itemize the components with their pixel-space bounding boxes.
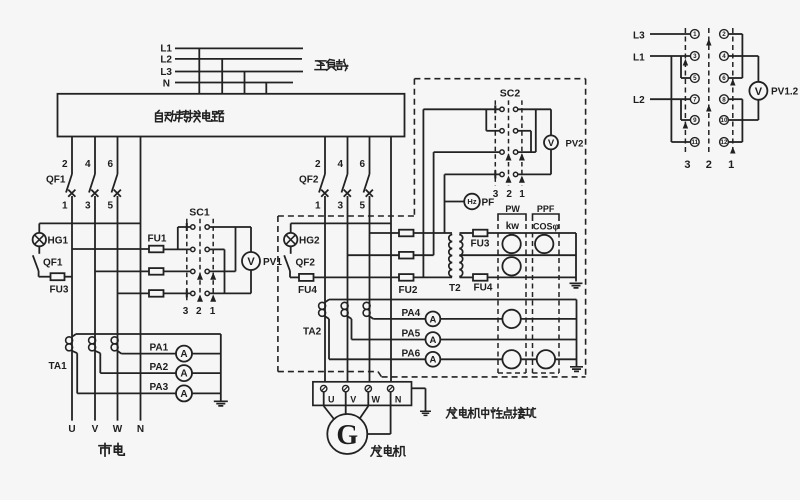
wire terminal U to generator: [323, 392, 325, 406]
fuse FU3 (mains control): [51, 273, 65, 280]
ground generator neutral: [420, 411, 431, 415]
svg-text:COSφ: COSφ: [533, 222, 560, 232]
wire panel L2 to contact 7: [650, 98, 690, 100]
wire meters common down: [575, 233, 577, 282]
wire PA6 row to wattmeter current coil 2: [440, 358, 502, 360]
wire SC1 row2-row4 tie: [224, 249, 226, 293]
svg-text:FU3: FU3: [50, 285, 69, 296]
svg-text:A: A: [429, 314, 436, 325]
wattmeter voltage coil 2: [502, 257, 520, 275]
breaker QF1 pole 1 upper lead, pin 2: [71, 137, 73, 175]
svg-text:1: 1: [728, 159, 734, 171]
fuse FU3 (instrument): [473, 230, 488, 237]
wire panel L1 to contact 3: [650, 55, 690, 57]
svg-text:6: 6: [107, 159, 113, 170]
wire lamp branch to generator N: [291, 222, 391, 224]
breaker QF2 pole 1 contact x-mark: [321, 190, 328, 197]
selector SC2 position line 2: [508, 100, 510, 185]
svg-text:SC1: SC1: [189, 207, 210, 219]
wire PA5 row to common: [440, 339, 576, 341]
svg-text:7: 7: [693, 96, 697, 103]
panel contact terminal 4: [720, 52, 729, 61]
fuse FU4 (generator control): [299, 274, 314, 281]
wire FU2a to T2 primary top: [414, 232, 453, 234]
svg-text:A: A: [429, 355, 436, 366]
wire panel to PV1.2 top: [742, 55, 758, 57]
wire T2 secondary top to FU3: [460, 232, 474, 234]
indicator lamp HG1: [33, 233, 46, 246]
wire PA6 row link: [521, 358, 537, 360]
svg-text:Hz: Hz: [467, 197, 476, 206]
selector SC2 position line 3: [494, 100, 496, 185]
transformer T2 primary winding: [449, 235, 452, 277]
svg-text:kw: kw: [506, 221, 520, 232]
svg-text:N: N: [395, 395, 402, 405]
selector SC1 row 3 contacts: [191, 269, 195, 273]
wire generator N vertical: [390, 137, 392, 386]
wattmeter column dashed right: [525, 224, 527, 373]
generator terminal N: [387, 385, 393, 391]
wire L1: [175, 47, 303, 49]
svg-text:PA6: PA6: [402, 349, 421, 360]
svg-text:3: 3: [684, 159, 690, 171]
svg-text:FU3: FU3: [471, 239, 490, 250]
svg-text:4: 4: [722, 53, 726, 60]
voltmeter PV1.2: [749, 82, 767, 100]
wire TA2-V to PA5: [348, 316, 352, 319]
wire panel to PV1.2 bottom: [742, 119, 758, 121]
wire SC2 row4 riser: [444, 174, 446, 233]
wire TA2 common down: [576, 300, 578, 367]
wire PV2 bottom to SC2 row4: [550, 149, 552, 174]
fuse FU4 (instrument): [473, 274, 488, 281]
svg-text:U: U: [328, 395, 335, 405]
svg-text:QF1: QF1: [43, 258, 63, 269]
svg-text:4: 4: [85, 159, 91, 170]
fuse FU2c: [399, 274, 414, 281]
wire generator neutral ground stub: [412, 387, 426, 389]
wire mains N vertical: [140, 137, 142, 421]
wire aux QF2 to FU4: [289, 271, 291, 277]
breaker QF1 pole 1 blade: [66, 174, 72, 193]
panel contact terminal 7: [690, 95, 699, 104]
panel position arrows: [707, 40, 711, 45]
wire phase W2 to FU2a: [370, 232, 400, 234]
wire FU4 to FU2c row: [314, 276, 400, 278]
wire SC2 row2 stub: [518, 130, 531, 132]
svg-text:1: 1: [315, 201, 321, 212]
generator terminal V: [343, 385, 349, 391]
svg-text:8: 8: [722, 96, 726, 103]
svg-text:12: 12: [721, 139, 728, 146]
selector SC1 row 4 contacts: [191, 291, 195, 295]
wire PA4 row to common: [521, 318, 577, 320]
selector SC2 contact ticks: [494, 105, 496, 113]
wire SC2 row4 feed: [445, 173, 500, 175]
svg-text:HG2: HG2: [299, 236, 320, 247]
wattmeter PW bracket and label: [498, 214, 526, 221]
wire SC2 row3 stub: [518, 151, 536, 153]
current transformer TA1 phase V: [89, 337, 96, 344]
svg-text:N: N: [137, 424, 144, 435]
wattmeter current coil 1: [502, 310, 520, 328]
wire aux to fuse: [38, 271, 40, 277]
wire lamp bottom lead: [38, 246, 40, 254]
panel contact terminal 6: [720, 74, 729, 83]
wire SC2 row1 feed: [423, 108, 499, 110]
current transformer TA2 phase V: [341, 302, 348, 309]
breaker QF2 pole 2 blade: [342, 174, 348, 193]
panel contact terminal 9: [690, 116, 699, 125]
svg-text:A: A: [429, 335, 436, 346]
svg-text:3: 3: [183, 306, 189, 317]
current transformer TA2 phase U: [319, 302, 326, 309]
breaker QF1 pole 2 upper lead, pin 4: [94, 137, 96, 175]
wattmeter voltage coil 1: [502, 235, 520, 253]
svg-text:5: 5: [107, 201, 113, 212]
svg-text:2: 2: [706, 159, 712, 171]
PPF column dashed bottom: [533, 372, 560, 374]
breaker QF2 pole 3 blade: [364, 174, 370, 193]
breaker QF1 pole 1 lower lead, pin 1: [71, 196, 73, 421]
svg-text:TA2: TA2: [303, 327, 322, 338]
wire phase V to FU1b: [95, 270, 149, 272]
selector SC1 position line 1: [212, 219, 214, 301]
breaker QF2 pole 1 upper lead, pin 2: [324, 137, 326, 175]
svg-text:SC2: SC2: [500, 88, 521, 100]
breaker QF2 pole 2 lower lead, pin 3: [347, 196, 349, 385]
svg-text:1: 1: [693, 31, 697, 38]
wire TA2 secondary common bus: [329, 299, 577, 301]
current transformer TA1 phase U: [66, 337, 73, 344]
svg-text:A: A: [180, 349, 187, 360]
svg-text:4: 4: [337, 159, 343, 170]
fuse FU1b: [149, 268, 164, 275]
svg-text:6: 6: [359, 159, 365, 170]
svg-text:PV1.2: PV1.2: [771, 87, 799, 98]
power factor meter voltage coil: [535, 235, 553, 253]
svg-text:V: V: [92, 424, 99, 435]
svg-text:A: A: [180, 369, 187, 380]
svg-text:FU4: FU4: [298, 285, 317, 296]
voltmeter PV1: [242, 252, 260, 270]
wire FU2c to T2 primary bottom: [414, 276, 453, 278]
aux contact QF2: [284, 255, 290, 271]
breaker QF1 pole 3 lower lead, pin 5: [117, 196, 119, 421]
svg-text:V: V: [247, 256, 255, 268]
selector SC1 position line 2: [199, 219, 201, 301]
svg-text:2: 2: [722, 31, 726, 38]
ground TA2 common: [570, 367, 583, 372]
breaker QF2 pole 1 lower lead, pin 1: [324, 196, 326, 385]
generator G: [327, 414, 367, 454]
svg-text:L2: L2: [633, 95, 645, 106]
svg-text:QF1: QF1: [46, 175, 66, 186]
wire FU3 to phase U: [65, 276, 73, 278]
selector SC1 contact ticks: [186, 223, 188, 231]
wire TA2-W to PA4: [370, 316, 374, 319]
breaker QF1 pole 3 blade: [112, 174, 118, 193]
wire SC2 row2 tie: [530, 131, 532, 152]
svg-text:PA5: PA5: [402, 329, 421, 340]
panel position line 2: [708, 28, 710, 154]
breaker QF1 pole 3 contact x-mark: [114, 190, 121, 197]
panel contact terminal 11: [690, 138, 699, 147]
svg-text:5: 5: [693, 75, 697, 82]
svg-text:3: 3: [85, 201, 91, 212]
wire TA1 secondary common bus: [76, 333, 221, 335]
svg-text:FU2: FU2: [399, 285, 418, 296]
wire T2 secondary center tap: [460, 254, 577, 256]
wire SC2 row1 riser: [422, 109, 424, 277]
svg-text:2: 2: [506, 189, 512, 200]
svg-text:V: V: [755, 86, 763, 98]
breaker QF1 pole 2 blade: [89, 174, 95, 193]
wire PA6 row to common: [555, 358, 576, 360]
svg-text:V: V: [548, 138, 555, 149]
wire L2 drop to ATS box: [221, 59, 223, 94]
label generator 发电机: [371, 446, 382, 457]
selector SC2 row 1 contacts: [500, 107, 504, 111]
svg-text:1: 1: [519, 189, 525, 200]
svg-text:2: 2: [315, 159, 321, 170]
selector SC1 row 1 contacts: [191, 225, 195, 229]
breaker QF1 pole 3 upper lead, pin 6: [117, 137, 119, 175]
PPF column dashed right: [558, 224, 560, 373]
svg-text:10: 10: [721, 117, 728, 124]
wire terminal N to generator: [390, 392, 392, 434]
svg-text:11: 11: [692, 139, 699, 146]
svg-text:N: N: [163, 78, 170, 89]
generator terminal box: [313, 382, 412, 406]
wire SC2 row3 riser: [433, 152, 435, 255]
svg-text:QF2: QF2: [296, 258, 316, 269]
frequency meter Hz/PF: [464, 194, 480, 210]
wire SC1 row4 to PV1 bottom: [209, 292, 251, 294]
wire N: [175, 82, 293, 84]
svg-text:1: 1: [210, 306, 216, 317]
aux contact QF1: [33, 255, 39, 271]
svg-text:PA2: PA2: [150, 362, 169, 373]
wattmeter column dashed bottom: [498, 372, 526, 374]
wire Hz meter lead: [445, 201, 465, 203]
wire lamp branch to N: [39, 222, 140, 224]
wire PA4 row to wattmeter current coil: [440, 318, 502, 320]
panel contact terminal 3: [690, 52, 699, 61]
wire terminal W to generator: [367, 392, 369, 406]
wire panel contact 5 tie: [680, 56, 682, 78]
wire lamp top lead: [38, 223, 40, 233]
selector SC2 row 3 contacts: [500, 150, 504, 154]
breaker QF2 pole 1 blade: [319, 174, 325, 193]
svg-text:1: 1: [62, 201, 68, 212]
dashed enclosure generator section: [277, 216, 279, 372]
svg-text:T2: T2: [449, 283, 461, 294]
svg-text:L3: L3: [160, 67, 172, 78]
wire panel contact 8-10-12 tie: [728, 98, 742, 100]
fuse FU2a: [399, 230, 414, 237]
wire L3: [175, 71, 303, 73]
wire TA1-U to PA3: [72, 351, 77, 353]
svg-text:L1: L1: [160, 44, 172, 55]
wire L3 drop to ATS box: [244, 72, 246, 94]
generator terminal U: [321, 385, 327, 391]
wire panel contact 9 tie: [680, 99, 682, 120]
ground meters common: [570, 283, 583, 288]
selector SC2 position arrows: [506, 155, 511, 161]
breaker QF2 pole 3 contact x-mark: [366, 190, 373, 197]
wire FU2b to SC2 row3 riser: [414, 254, 434, 256]
wire TA1-V to PA2: [95, 351, 100, 353]
wire L1 drop to ATS box: [198, 48, 200, 93]
breaker QF2 pole 2 contact x-mark: [344, 190, 351, 197]
svg-text:V: V: [350, 395, 356, 405]
breaker QF2 pole 3 upper lead, pin 6: [369, 137, 371, 175]
svg-text:3: 3: [693, 53, 697, 60]
svg-text:9: 9: [693, 117, 697, 124]
fuse FU1c: [149, 290, 164, 297]
svg-text:L3: L3: [633, 31, 645, 42]
wire SC1 row1-row3 tie: [235, 227, 237, 271]
PPF column dashed left: [532, 224, 534, 373]
wire FU1c to SC1 row4: [164, 292, 191, 294]
indicator lamp HG2: [284, 233, 297, 246]
svg-text:PA3: PA3: [150, 382, 169, 393]
breaker QF1 pole 2 lower lead, pin 3: [94, 196, 96, 421]
wire SC1 row1 to PV1 top: [209, 226, 251, 228]
wire SC1 row2 stub: [209, 248, 224, 250]
selector SC2 row 2 contacts: [500, 129, 504, 133]
svg-text:FU1: FU1: [148, 234, 167, 245]
wire TA1 common down: [220, 334, 222, 401]
wire SC2 row2 jumper: [486, 130, 500, 132]
selector SC2 row 4 contacts: [500, 172, 504, 176]
wire panel contact 2-4-6 tie: [728, 33, 742, 35]
wire SC2 row3 feed: [434, 151, 500, 153]
svg-text:3: 3: [337, 201, 343, 212]
svg-text:A: A: [180, 389, 187, 400]
panel contact terminal 1: [690, 30, 699, 39]
wire TA1-W to PA1: [118, 351, 122, 354]
panel contact terminal 5: [690, 74, 699, 83]
wire FU3 to meters line1: [487, 232, 576, 234]
svg-text:PV1: PV1: [263, 257, 282, 268]
svg-text:PA4: PA4: [402, 308, 421, 319]
svg-text:W: W: [372, 395, 381, 405]
svg-text:U: U: [68, 424, 75, 435]
svg-text:HG1: HG1: [48, 236, 69, 247]
svg-text:G: G: [336, 420, 358, 451]
wire N drop to ATS box: [265, 83, 267, 94]
wire panel L1 to contact 11: [670, 56, 672, 142]
wire FU1a to SC1 row2: [164, 248, 191, 250]
selector SC2 position line 1: [521, 100, 523, 185]
svg-text:2: 2: [62, 159, 68, 170]
breaker QF1 pole 2 contact x-mark: [91, 190, 98, 197]
svg-text:L1: L1: [633, 53, 645, 64]
wire SC2 row1-row3 tie: [535, 109, 537, 152]
svg-text:TA1: TA1: [49, 361, 68, 372]
fuse FU1a: [149, 246, 164, 253]
wire phase W to FU1c: [118, 292, 150, 294]
wire HG2 top lead: [290, 223, 292, 233]
selector SC1 position line 3: [186, 219, 188, 301]
wire panel L3 to contact 1: [650, 33, 690, 35]
generator terminal W: [365, 385, 371, 391]
wire TA2-U to PA6: [325, 316, 329, 319]
block automatic transfer circuit 自动转换电路: [58, 94, 405, 137]
svg-text:FU4: FU4: [474, 283, 493, 294]
breaker QF2 pole 3 lower lead, pin 5: [369, 196, 371, 385]
svg-text:PW: PW: [505, 204, 520, 214]
wire phase V2 to FU2b: [348, 254, 400, 256]
wire terminal V to generator: [345, 392, 347, 414]
wattmeter column dashed left: [497, 224, 499, 373]
wire FU1b to SC1 row3: [164, 270, 191, 272]
breaker QF1 pole 1 contact x-mark: [68, 190, 75, 197]
panel position line 1: [732, 28, 734, 154]
wire SC1 row3 stub: [209, 270, 235, 272]
svg-text:L2: L2: [160, 55, 172, 66]
selector SC1 row 2 contacts: [191, 247, 195, 251]
panel contact terminal 8: [720, 95, 729, 104]
voltmeter PV2: [544, 135, 558, 149]
svg-text:PPF: PPF: [537, 204, 555, 214]
label to-load 至负载: [315, 61, 327, 70]
panel position line 3: [684, 28, 686, 154]
wire phase U to FU1a: [72, 248, 149, 250]
ground TA1 common: [214, 401, 228, 406]
wire L2: [175, 58, 302, 60]
power factor meter current coil: [537, 350, 555, 368]
wire FU4 to meters line3: [487, 276, 576, 278]
selector SC1 position arrows: [198, 274, 203, 280]
wire SC1 row1 jumper: [178, 226, 191, 228]
panel contact terminal 10: [720, 116, 729, 125]
svg-text:5: 5: [359, 201, 365, 212]
panel contact terminal 12: [720, 138, 729, 147]
current transformer TA1 phase W: [111, 337, 118, 344]
transformer T2 secondary winding: [459, 235, 463, 277]
svg-text:QF2: QF2: [299, 175, 319, 186]
svg-text:PV2: PV2: [566, 139, 584, 150]
wire SC2 row1 to PV2 top: [518, 108, 551, 110]
breaker QF2 pole 2 upper lead, pin 4: [347, 137, 349, 175]
wire T2 secondary bottom to FU4: [460, 276, 474, 278]
svg-text:W: W: [113, 424, 123, 435]
wire HG2 bottom lead: [290, 246, 292, 254]
label generator neutral grounding 发电机中性点接地: [446, 408, 456, 418]
label mains 市电: [99, 444, 111, 456]
svg-text:2: 2: [196, 306, 202, 317]
current transformer TA2 phase W: [363, 302, 370, 309]
svg-text:PA1: PA1: [150, 343, 169, 354]
fuse FU2b: [399, 252, 414, 259]
svg-text:PF: PF: [482, 198, 495, 209]
svg-text:6: 6: [722, 75, 726, 82]
panel contact terminal 2: [720, 30, 729, 39]
wattmeter current coil 2: [502, 350, 520, 368]
power factor meter PPF bracket and label: [533, 214, 560, 221]
